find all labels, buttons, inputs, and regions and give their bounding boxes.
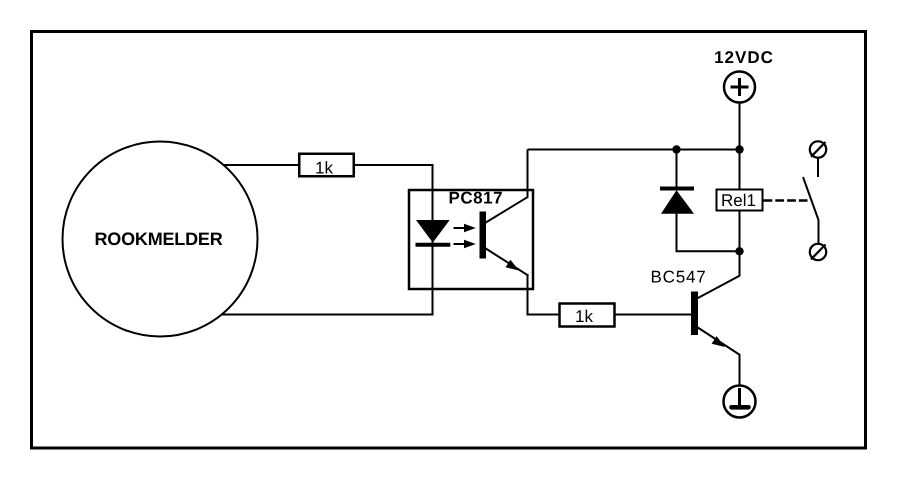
- dashed mechanical link Rel1 to contact: [764, 199, 808, 202]
- wire opto emitter to R2: [528, 275, 559, 315]
- wire opto collector to +rail: [527, 150, 529, 198]
- relay contact bottom terminal: [810, 244, 826, 260]
- svg-text:BC547: BC547: [651, 268, 707, 287]
- flyback diode D1: [660, 150, 740, 252]
- LED of optocoupler: [416, 220, 451, 245]
- wire relay coil to node: [739, 211, 741, 252]
- node junction rail/diode: [672, 145, 680, 153]
- wire R1 to LED anode: [355, 164, 434, 166]
- svg-text:PC817: PC817: [449, 189, 503, 208]
- svg-text:Rel1: Rel1: [721, 191, 756, 210]
- transistor Q1 BC547: [691, 276, 740, 356]
- smoke detector ROOKMELDER: [63, 142, 258, 337]
- light arrow 1: [454, 224, 476, 233]
- wire LED vertical branch: [432, 164, 434, 316]
- wire rail to relay coil: [739, 150, 741, 190]
- wire top terminal stem: [817, 158, 819, 178]
- wire emitter to ground: [739, 355, 741, 387]
- 12VDC supply: [714, 48, 774, 103]
- phototransistor of optocoupler: [480, 197, 529, 276]
- relay contact arm: [803, 177, 819, 220]
- optocoupler U1 PC817 box: [409, 190, 533, 289]
- resistor R2 1k: [560, 304, 615, 327]
- relay contact top terminal: [810, 141, 826, 157]
- wire detector to R1: [224, 164, 298, 166]
- wire detector bottom to LED cathode: [221, 314, 433, 316]
- node junction diode/coil/collector: [735, 247, 743, 255]
- wire bottom terminal stem: [818, 220, 820, 244]
- relay coil Rel1: [717, 190, 763, 211]
- svg-text:1k: 1k: [315, 159, 333, 178]
- wire supply to rail: [739, 103, 741, 150]
- light arrow 2: [454, 240, 476, 249]
- svg-text:1k: 1k: [575, 307, 593, 326]
- svg-text:ROOKMELDER: ROOKMELDER: [95, 229, 223, 249]
- wire collector to node: [739, 251, 741, 276]
- resistor R1 1k: [299, 154, 354, 178]
- node junction rail/supply: [735, 145, 743, 153]
- svg-text:12VDC: 12VDC: [714, 48, 774, 67]
- wire R2 to base: [615, 314, 692, 316]
- wire +12V top rail: [528, 149, 740, 151]
- ground: [724, 386, 756, 418]
